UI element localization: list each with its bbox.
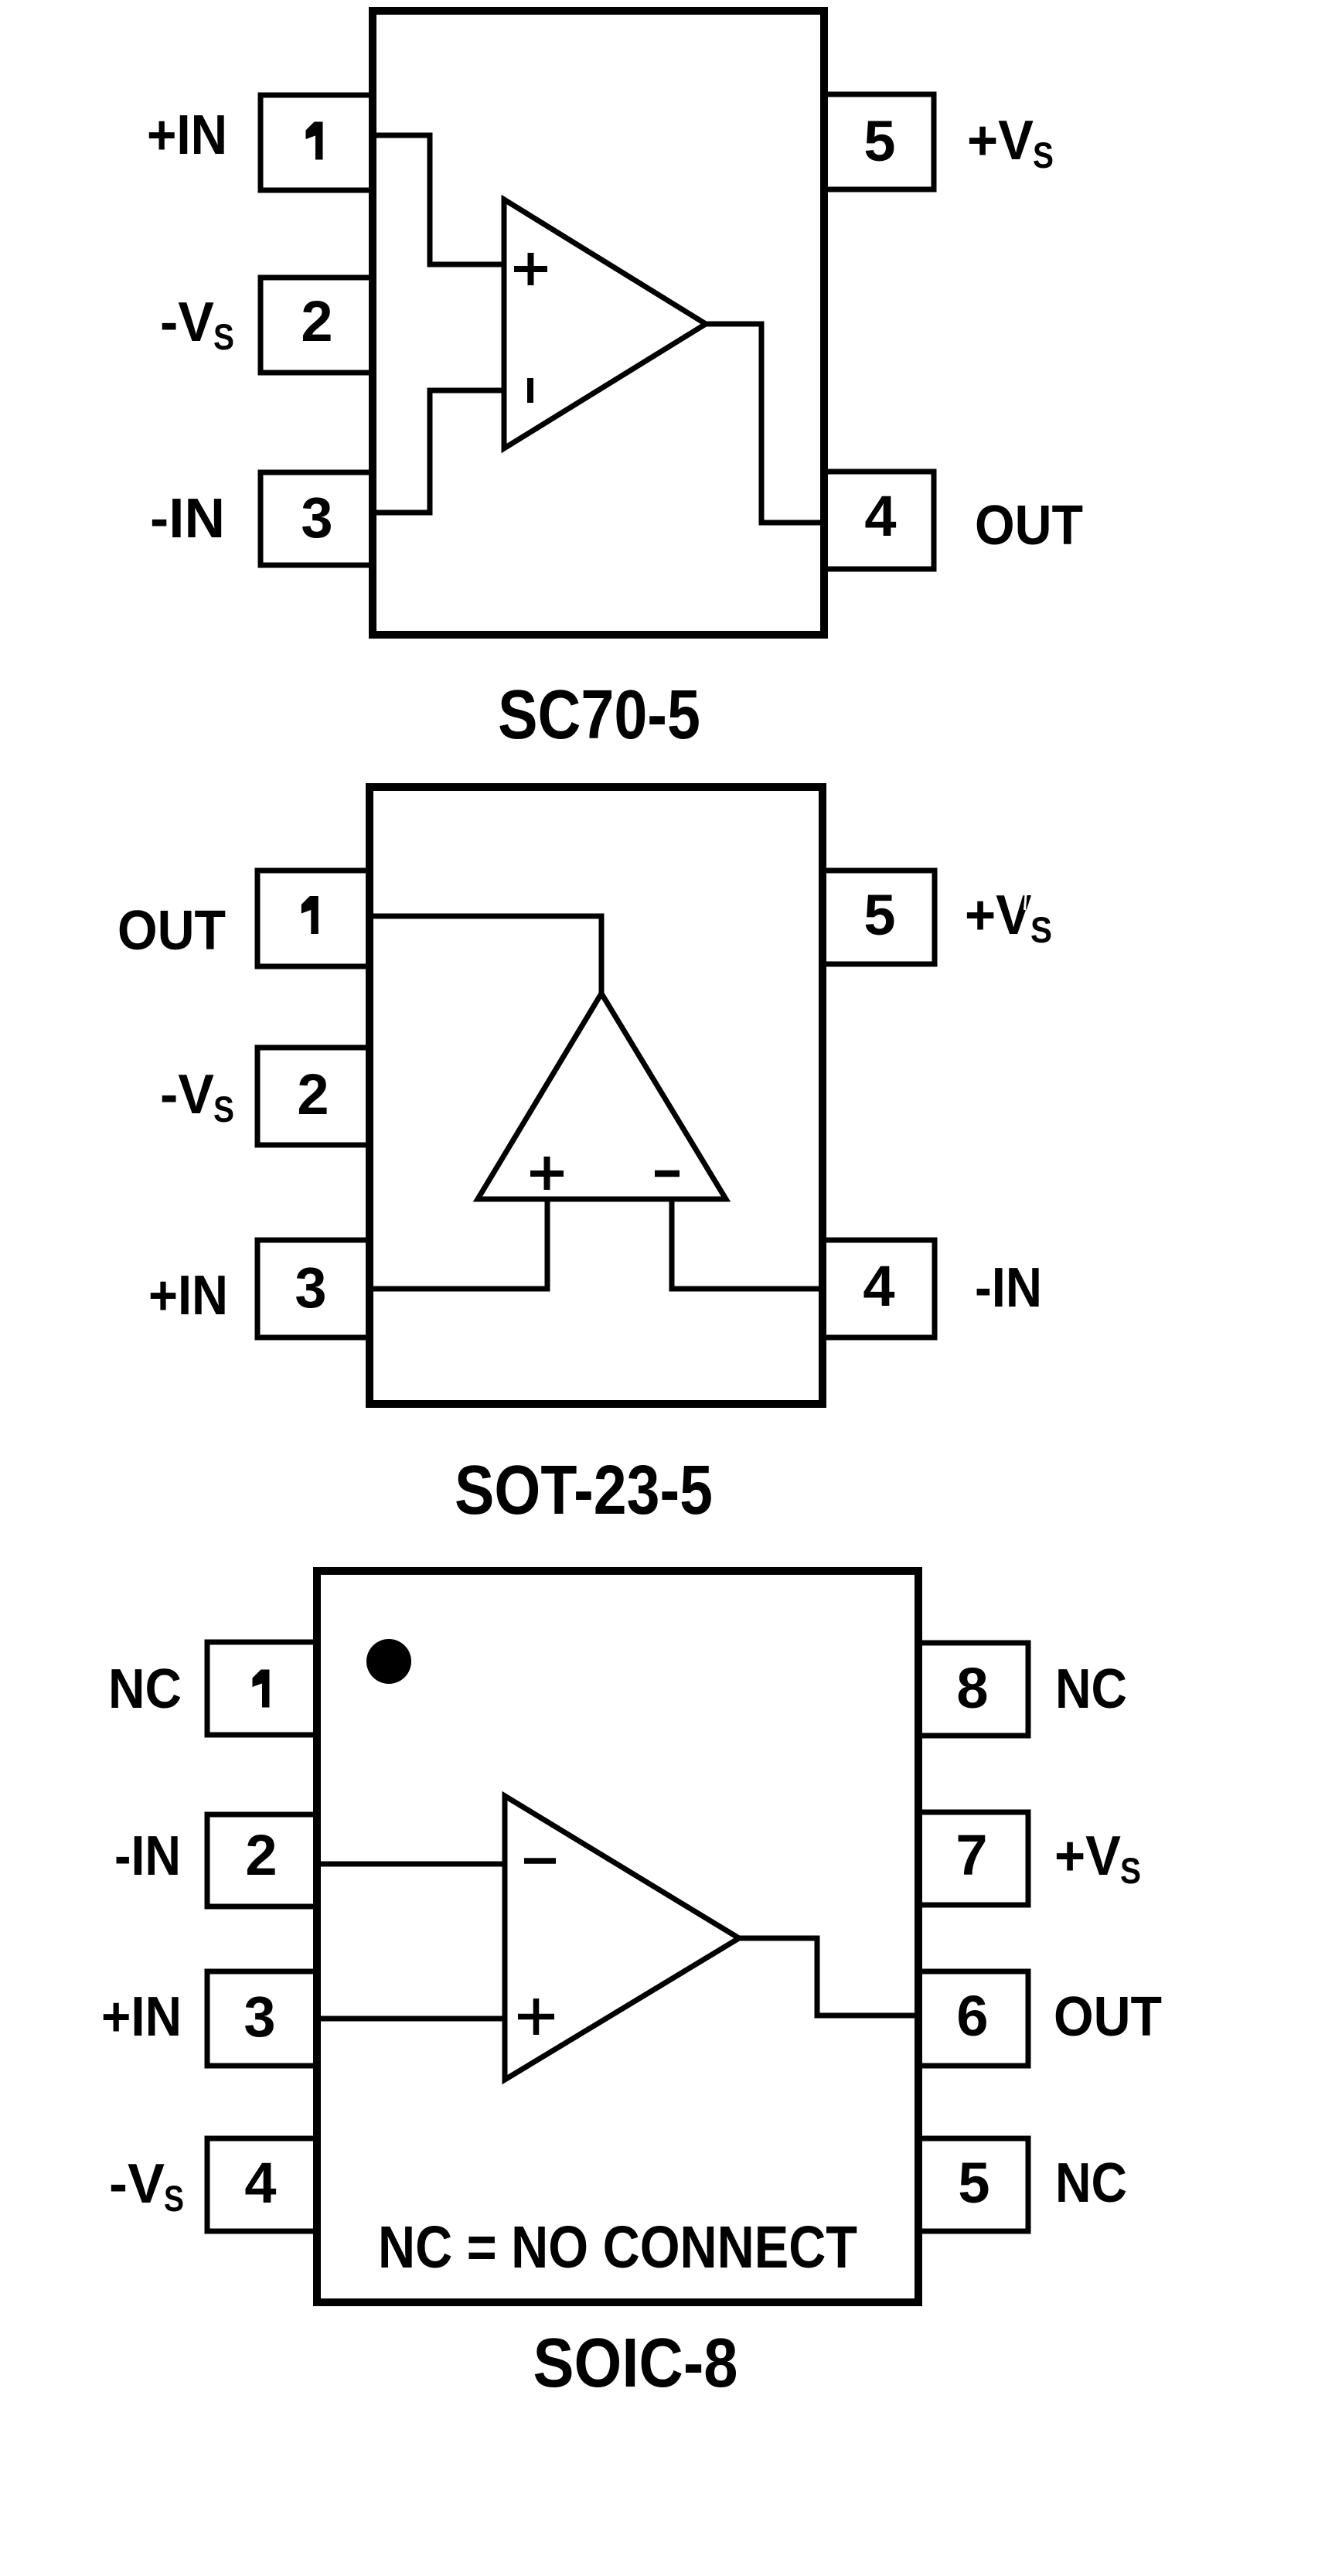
- svg-text:3: 3: [244, 1985, 275, 2049]
- package body SOIC-8: [317, 1571, 918, 2302]
- wire pin3 to -input: [373, 390, 504, 513]
- op-amp U1 triangle: [505, 1796, 739, 2080]
- svg-text:2: 2: [297, 1062, 329, 1126]
- svg-text:+IN: +IN: [147, 104, 227, 166]
- svg-text:-IN: -IN: [975, 1257, 1042, 1319]
- pin 2 box: [261, 278, 373, 373]
- svg-text:3: 3: [301, 486, 332, 550]
- svg-text:5: 5: [863, 883, 895, 947]
- svg-text:+IN: +IN: [101, 1986, 182, 2048]
- svg-text:+V: +V: [1054, 1825, 1121, 1887]
- svg-text:3: 3: [295, 1256, 326, 1320]
- svg-text:4: 4: [244, 2151, 276, 2215]
- pin 5 box: [824, 94, 934, 189]
- pin 3 box: [207, 1971, 317, 2066]
- pin 5 box: [918, 2138, 1028, 2231]
- svg-text:NC: NC: [108, 1658, 182, 1720]
- wire pin1 to output apex: [370, 916, 601, 993]
- pin 6 box: [918, 1971, 1028, 2066]
- svg-text:+V: +V: [965, 884, 1031, 946]
- pin number 1: [306, 122, 323, 160]
- pin 3 box: [261, 472, 373, 565]
- pin 1 box: [257, 871, 370, 966]
- svg-text:S: S: [213, 316, 234, 357]
- svg-text:NC: NC: [1055, 1658, 1127, 1720]
- minus symbol (vertical): [527, 378, 533, 403]
- plus symbol: [518, 1998, 554, 2035]
- minus symbol: [524, 1858, 556, 1864]
- svg-text:-V: -V: [160, 291, 214, 353]
- pin 7 box: [918, 1812, 1028, 1905]
- minus symbol: [655, 1170, 680, 1177]
- svg-text:S: S: [213, 1089, 234, 1130]
- svg-text:4: 4: [863, 1254, 894, 1318]
- wire pin3 to +input: [370, 1199, 547, 1289]
- wire output to pin4: [706, 324, 824, 523]
- svg-text:+IN: +IN: [148, 1265, 228, 1327]
- prime tick artifact: [1025, 895, 1027, 910]
- plus symbol: [530, 1157, 564, 1190]
- svg-text:SC70-5: SC70-5: [498, 676, 700, 754]
- svg-text:6: 6: [956, 1984, 988, 2048]
- wire output to pin6: [739, 1938, 918, 2015]
- pin 8 box: [918, 1643, 1028, 1736]
- pin 1 orientation dot: [366, 1639, 411, 1684]
- svg-text:-V: -V: [160, 1064, 214, 1126]
- wire pin4 to -input: [672, 1199, 823, 1289]
- svg-text:7: 7: [955, 1823, 987, 1887]
- pin 4 box: [207, 2138, 317, 2231]
- svg-text:SOIC-8: SOIC-8: [533, 2325, 738, 2402]
- pin 5 box: [823, 871, 935, 964]
- wire pin3 to +input: [317, 2016, 505, 2022]
- svg-text:+V: +V: [967, 110, 1034, 172]
- svg-text:S: S: [1033, 135, 1054, 175]
- svg-text:OUT: OUT: [975, 495, 1083, 557]
- package body SC70-5: [373, 11, 824, 635]
- svg-text:8: 8: [956, 1656, 988, 1720]
- svg-text:NC: NC: [1055, 2152, 1127, 2214]
- pin 4 box: [824, 472, 934, 569]
- pin 2 box: [207, 1814, 317, 1906]
- svg-text:SOT-23-5: SOT-23-5: [455, 1452, 713, 1529]
- svg-text:4: 4: [864, 484, 896, 548]
- svg-text:5: 5: [863, 109, 895, 173]
- pin 3 box: [257, 1240, 370, 1337]
- svg-text:-IN: -IN: [150, 488, 225, 550]
- svg-text:-IN: -IN: [114, 1825, 181, 1887]
- svg-text:-V: -V: [109, 2153, 165, 2215]
- svg-text:5: 5: [958, 2151, 989, 2215]
- svg-text:OUT: OUT: [1054, 1986, 1162, 2048]
- wire pin2 to -input: [317, 1862, 505, 1867]
- wire pin1 to +input: [373, 135, 504, 264]
- pin 1 box: [261, 95, 373, 190]
- pin number 1: [253, 1670, 270, 1708]
- plus symbol: [514, 253, 547, 285]
- pin number 1: [301, 896, 318, 934]
- svg-text:S: S: [1030, 909, 1052, 950]
- svg-text:2: 2: [245, 1823, 277, 1887]
- pin 4 box: [823, 1240, 935, 1337]
- pin 1 box: [207, 1642, 317, 1735]
- op-amp U1 triangle: [478, 993, 726, 1199]
- svg-text:2: 2: [301, 289, 332, 353]
- svg-text:OUT: OUT: [118, 900, 226, 962]
- svg-text:S: S: [164, 2178, 184, 2219]
- pin 2 box: [257, 1048, 370, 1145]
- package body SOT-23-5: [370, 787, 823, 1404]
- svg-text:NC = NO CONNECT: NC = NO CONNECT: [378, 2214, 857, 2281]
- op-amp U1 triangle: [504, 199, 706, 448]
- svg-text:S: S: [1120, 1850, 1141, 1891]
